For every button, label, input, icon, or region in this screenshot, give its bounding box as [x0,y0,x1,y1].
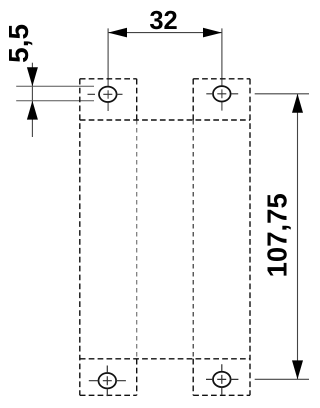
outline left outer edge [79,79,81,396]
hole bottom-right crosshair vertical [221,364,223,395]
upper bridge line [80,119,250,121]
outline left tab inner edge top [136,79,138,120]
hole top-right [213,86,231,101]
dimension 107,75 top extension line [255,93,309,95]
hole bottom-left [99,373,117,388]
dimension 107,75 bottom arrow [292,360,303,379]
dimension 5,5 top extension line [16,85,94,87]
svg-text:107,75: 107,75 [262,193,293,277]
outline right outer edge [249,79,251,396]
extension line right hole vertical [221,28,223,110]
hole top-left [99,87,117,102]
outline top edge right tab [193,78,250,80]
outline right tab inner edge top [192,79,194,120]
svg-text:5,5: 5,5 [3,24,34,63]
dimension 32 line [108,32,222,34]
outline bottom edge right tab [193,394,250,396]
outline bottom edge left tab [80,394,137,396]
dimension 107,75 top arrow [292,94,303,113]
lower bridge line [80,358,250,360]
dimension 5,5 top arrow [27,67,38,86]
outline right tab inner edge bottom [192,359,194,396]
svg-text:32: 32 [149,7,177,35]
outline left tab inner edge bottom [136,359,138,396]
dimension 107,75 bottom extension line [255,378,309,380]
dimension 5,5 bottom extension line [16,100,94,102]
dimension 107,75 line [297,94,299,380]
hole bottom-left crosshair horizontal [89,380,126,382]
extension line left hole vertical [107,28,109,111]
hole bottom-right crosshair horizontal [206,378,238,380]
dimension 32 right arrow [203,28,222,38]
hole bottom-left crosshair vertical [106,366,108,397]
hole top-left crosshair horizontal [88,93,123,95]
inner line right middle [192,120,194,359]
inner line left middle [136,120,138,359]
hole bottom-right [213,372,231,387]
hole top-right crosshair horizontal [206,93,238,95]
outline top edge left tab [80,78,137,80]
dimension 5,5 bottom arrow [27,101,38,120]
dimension 5,5 line [31,63,33,137]
dimension 32 left arrow [108,28,127,38]
